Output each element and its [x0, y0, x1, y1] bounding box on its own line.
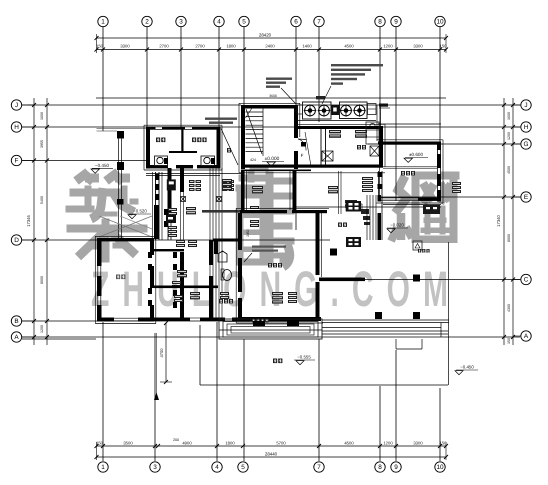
svg-text:1800: 1800 — [225, 441, 235, 446]
washing fixtures — [155, 156, 168, 166]
svg-text:8: 8 — [378, 19, 382, 26]
棋牌室 label — [219, 299, 223, 303]
entrance steps nested — [219, 319, 322, 339]
reception room walls — [240, 210, 287, 213]
svg-text:2: 2 — [145, 19, 149, 26]
svg-text:150: 150 — [440, 44, 448, 49]
svg-text:150: 150 — [96, 441, 104, 446]
duct wall bundle x366-381 — [366, 195, 368, 240]
平台 label + -0.555 — [273, 359, 277, 364]
right axis circles — [521, 100, 531, 110]
svg-text:−0.555: −0.555 — [297, 355, 311, 360]
svg-text:C: C — [524, 277, 529, 284]
svg-text:D: D — [14, 237, 19, 244]
dim stack — [272, 292, 283, 295]
svg-text:28440: 28440 — [265, 452, 278, 457]
svg-text:1200: 1200 — [383, 44, 393, 49]
columns — [413, 275, 420, 282]
living room walls — [97, 238, 154, 241]
main mid horizontal wall — [241, 165, 383, 168]
bottom dimension chain — [97, 445, 447, 447]
svg-text:A: A — [14, 334, 19, 341]
porch west wall + blocks — [117, 131, 124, 139]
corridor dense details — [146, 173, 241, 175]
corridor door diagonal — [221, 129, 238, 166]
svg-text:1200: 1200 — [507, 132, 511, 140]
axis grid vertical lines — [102, 27, 104, 131]
C axis wall right of reception — [319, 278, 365, 282]
svg-text:2400: 2400 — [265, 44, 275, 49]
svg-text:28420: 28420 — [259, 33, 272, 38]
4700 vertical dimension — [165, 323, 167, 382]
svg-text:9: 9 — [394, 464, 398, 471]
right dimension chain — [503, 98, 505, 345]
svg-text:3955: 3955 — [40, 140, 44, 148]
svg-text:4500: 4500 — [344, 44, 354, 49]
tiny two-line note above upper rooms — [205, 118, 237, 120]
客厅 label — [116, 275, 120, 280]
kitchen equipment row — [303, 102, 332, 119]
dining area — [338, 223, 342, 227]
axis grid horizontal lines — [96, 97, 446, 99]
left dimension chain — [33, 98, 35, 345]
svg-text:4900: 4900 — [182, 441, 192, 446]
small note left of equipment — [266, 78, 292, 80]
canopy diagonals over entry — [99, 216, 152, 237]
annotation text block with leader — [331, 64, 383, 66]
corridor walls above reception — [241, 171, 245, 210]
svg-text:−0.450: −0.450 — [460, 365, 474, 370]
svg-text:F: F — [15, 158, 19, 165]
watermark text ZHULONG.COM — [91, 261, 448, 317]
svg-text:H: H — [14, 124, 19, 131]
svg-text:8: 8 — [378, 464, 382, 471]
svg-text:3: 3 — [179, 19, 183, 26]
svg-text:10: 10 — [436, 19, 444, 26]
stair hall walls — [241, 105, 298, 109]
svg-text:1: 1 — [101, 19, 105, 26]
svg-text:5400: 5400 — [40, 196, 44, 204]
svg-text:4500: 4500 — [507, 166, 511, 174]
svg-text:J: J — [524, 102, 527, 109]
svg-text:17346: 17346 — [26, 215, 31, 227]
svg-text:1400: 1400 — [302, 44, 312, 49]
annotation two lines — [252, 246, 286, 248]
svg-text:8000: 8000 — [507, 234, 511, 242]
watermark character ZHU (築) — [66, 172, 147, 262]
svg-text:3500: 3500 — [123, 441, 133, 446]
svg-text:2700: 2700 — [159, 44, 169, 49]
svg-text:G: G — [524, 141, 529, 148]
flue shaft symbol — [370, 146, 379, 156]
toilet fixtures — [218, 251, 227, 262]
door frames — [164, 209, 168, 215]
svg-text:10: 10 — [436, 464, 444, 471]
svg-text:E: E — [524, 194, 528, 201]
svg-text:1200: 1200 — [40, 325, 44, 333]
watermark character WANG (網) — [391, 172, 459, 243]
door arc at stair — [298, 139, 306, 151]
room labels 保姆/服务房 — [156, 138, 160, 143]
svg-text:J: J — [15, 102, 18, 109]
svg-text:6: 6 — [294, 19, 298, 26]
svg-text:5: 5 — [242, 19, 246, 26]
svg-text:4: 4 — [215, 464, 219, 471]
watermark character LONG (龍) — [236, 166, 294, 267]
svg-text:−0.450: −0.450 — [95, 163, 110, 168]
svg-text:1600: 1600 — [40, 112, 44, 120]
svg-text:3: 3 — [153, 464, 157, 471]
top dimension chain — [97, 37, 447, 39]
top axis circles — [98, 16, 108, 26]
svg-text:4700: 4700 — [159, 348, 164, 358]
svg-text:3300: 3300 — [413, 441, 423, 446]
corridor walls center — [155, 172, 157, 240]
plumbing chase verticals — [209, 168, 211, 321]
svg-text:1: 1 — [101, 464, 105, 471]
svg-text:9: 9 — [394, 19, 398, 26]
svg-text:B: B — [14, 318, 18, 325]
small dining room walls — [378, 142, 441, 145]
svg-text:1600: 1600 — [507, 112, 511, 120]
svg-text:±0.000: ±0.000 — [265, 156, 280, 162]
tiny label right of equipment — [379, 104, 388, 107]
svg-text:4300: 4300 — [507, 304, 511, 312]
svg-text:−0.520: −0.520 — [133, 209, 147, 214]
svg-text:3300: 3300 — [413, 44, 423, 49]
dining table fixture clusters — [346, 201, 361, 212]
svg-text:17340: 17340 — [496, 215, 501, 227]
kitchen counter right — [366, 122, 379, 144]
svg-text:1800: 1800 — [226, 44, 236, 49]
left axis circles — [11, 100, 21, 110]
svg-text:1200: 1200 — [383, 441, 393, 446]
terrace outline — [322, 322, 449, 324]
svg-text:200: 200 — [173, 438, 179, 442]
CAD double-line wall offsets — [144, 124, 222, 126]
svg-text:150: 150 — [96, 44, 104, 49]
svg-text:H: H — [524, 124, 529, 131]
svg-text:A: A — [524, 333, 529, 340]
svg-text:±0.600: ±0.600 — [409, 152, 423, 157]
drain well symbol — [413, 241, 422, 250]
svg-text:2700: 2700 — [195, 44, 205, 49]
stair treads — [246, 111, 264, 113]
svg-text:F: F — [301, 153, 304, 158]
svg-text:4: 4 — [217, 19, 221, 26]
svg-text:4500: 4500 — [344, 441, 354, 446]
svg-text:7: 7 — [317, 19, 321, 26]
svg-text:150: 150 — [507, 338, 511, 344]
svg-text:3300: 3300 — [120, 44, 130, 49]
svg-text:3600: 3600 — [269, 94, 277, 98]
partitions — [154, 249, 184, 251]
会客室 label — [268, 263, 272, 267]
svg-text:5: 5 — [241, 464, 245, 471]
extra dim stacks corridor — [168, 208, 177, 211]
svg-text:8000: 8000 — [40, 276, 44, 284]
小餐厅 label — [401, 171, 405, 175]
svg-text:424: 424 — [250, 158, 256, 162]
kitchen walls — [298, 126, 383, 129]
svg-text:2450: 2450 — [246, 229, 250, 237]
svg-text:7: 7 — [317, 464, 321, 471]
upper-left room block walls — [146, 127, 220, 130]
svg-text:150: 150 — [440, 441, 448, 446]
bottom axis circles — [98, 462, 108, 472]
svg-text:5700: 5700 — [276, 441, 286, 446]
dim stacks center — [186, 207, 196, 210]
svg-text:−0.020: −0.020 — [390, 223, 404, 228]
